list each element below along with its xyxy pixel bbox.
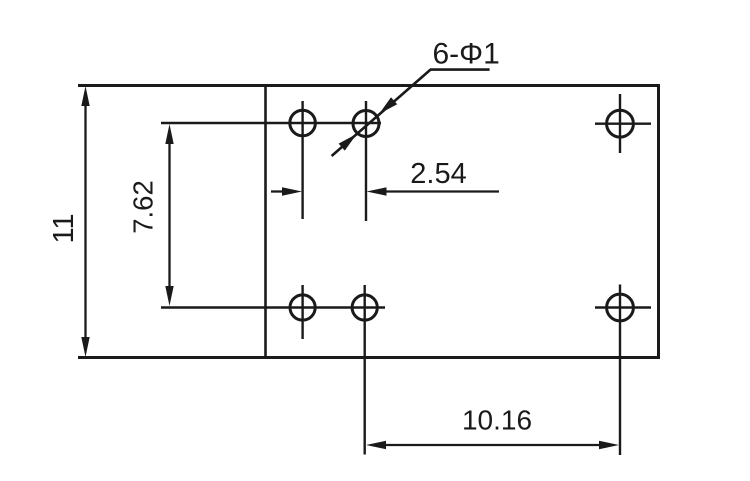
leader underline [430, 68, 490, 71]
top holes centerline (7.62 top extension) [161, 122, 381, 125]
bottom holes centerline (7.62 bottom extension) [161, 306, 385, 309]
hole F vertical centerline extended down as 10.16 extension [619, 285, 621, 456]
svg-text:2.54: 2.54 [410, 158, 466, 190]
hole E bottom second circle [352, 295, 377, 320]
hole A vertical centerline [301, 101, 303, 219]
dimension 11 line [81, 86, 89, 357]
body inner vertical line [264, 86, 267, 358]
hole C horizontal centerline [595, 122, 651, 124]
hole A top-left circle [290, 110, 316, 136]
hole D vertical centerline [301, 285, 303, 339]
hole C top-right circle [607, 110, 634, 137]
leader arrowhead pointing down-left at hole B upper edge [379, 97, 397, 114]
hole B vertical centerline [365, 101, 367, 221]
dimension 10.16 line [366, 441, 619, 449]
body outline right edge [657, 84, 660, 359]
leader diagonal line [332, 70, 431, 156]
body outline top edge [78, 84, 659, 87]
hole C vertical centerline [619, 94, 621, 153]
leader arrowhead pointing up-right at hole B lower edge [339, 134, 357, 151]
svg-text:11: 11 [48, 213, 80, 243]
body outline bottom edge [78, 356, 659, 359]
svg-text:7.62: 7.62 [128, 180, 159, 234]
hole F bottom-right circle [607, 294, 634, 321]
hole D bottom-left circle [290, 295, 315, 320]
hole E vertical centerline extended down as 10.16 extension [364, 285, 366, 455]
dimension 2.54 right arrow line [367, 187, 500, 195]
hole F horizontal centerline [595, 306, 651, 308]
dimension 2.54 left arrow line [271, 187, 302, 195]
dimension 7.62 line [165, 124, 173, 306]
svg-text:6-Φ1: 6-Φ1 [433, 37, 500, 70]
svg-text:10.16: 10.16 [462, 405, 532, 436]
hole B top second circle [353, 111, 379, 137]
